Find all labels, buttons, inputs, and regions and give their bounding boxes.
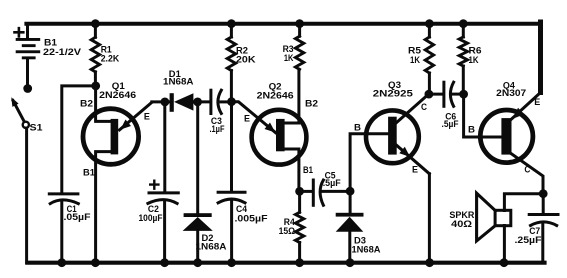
resistor R2 — [227, 24, 235, 102]
label C5 value — [323, 170, 341, 188]
svg-text:2N307: 2N307 — [496, 88, 526, 99]
wire right supply rail — [538, 22, 543, 93]
svg-text:B2: B2 — [80, 99, 93, 109]
transistor Q1 2N2646 — [83, 86, 152, 263]
label D1 value — [163, 69, 194, 87]
label C7 value — [515, 226, 543, 245]
svg-text:B1: B1 — [83, 167, 95, 177]
node speaker ground — [500, 258, 509, 267]
label R1 value — [101, 44, 120, 64]
node R4 ground — [295, 258, 304, 267]
node C2 ground — [160, 258, 169, 267]
switch S1 — [11, 97, 29, 128]
node Q3 emitter ground — [425, 258, 434, 267]
svg-text:2N2646: 2N2646 — [99, 90, 136, 101]
wire D2 branch — [196, 102, 199, 213]
svg-text:S1: S1 — [30, 123, 44, 134]
wire C2 branch — [163, 102, 166, 191]
svg-text:B1: B1 — [303, 165, 313, 175]
transistor Q2 2N2646 — [232, 69, 307, 191]
resistor R3 — [295, 24, 303, 70]
svg-text:.5µF: .5µF — [442, 119, 459, 129]
node C5/D3 junction — [346, 187, 355, 196]
node D2 ground — [193, 258, 202, 267]
svg-text:20K: 20K — [236, 54, 256, 65]
node D3 ground — [346, 258, 355, 267]
node C2 branch junction — [161, 98, 170, 107]
svg-text:C: C — [524, 165, 530, 175]
svg-text:.05µF: .05µF — [64, 212, 92, 222]
label R3 value — [283, 44, 294, 64]
svg-text:.005µF: .005µF — [235, 213, 269, 223]
wire R2 junction down to C4 — [230, 102, 233, 191]
svg-text:.5µF: .5µF — [323, 178, 341, 188]
node R3 top — [295, 19, 304, 28]
svg-text:40Ω: 40Ω — [451, 219, 472, 229]
svg-text:E: E — [412, 164, 418, 174]
svg-text:1N68A: 1N68A — [163, 77, 194, 87]
wire B2 junction to C1 branch — [62, 86, 96, 192]
label Q4 — [496, 81, 526, 100]
svg-text:2.2K: 2.2K — [101, 54, 120, 65]
label D2 value — [196, 233, 228, 251]
transistor Q3 2N2925 — [366, 94, 429, 263]
node D2 branch junction — [193, 98, 202, 107]
wire Q4 base branch — [464, 94, 502, 137]
node C4 ground — [227, 258, 236, 267]
svg-text:1K: 1K — [284, 53, 294, 64]
node battery/switch junction — [23, 84, 32, 93]
label R5 value — [408, 45, 422, 66]
label Q3 — [373, 80, 414, 100]
svg-text:1K: 1K — [410, 55, 420, 66]
capacitor C5 — [300, 180, 351, 205]
label C3 value — [210, 116, 225, 134]
label C1 value — [64, 204, 92, 222]
node C1 ground — [57, 258, 66, 267]
wire speaker top branch — [504, 194, 543, 211]
resistor R1 — [91, 24, 99, 86]
node R2 top — [227, 19, 236, 28]
capacitor C4 — [218, 192, 245, 263]
svg-text:.1µF: .1µF — [210, 124, 225, 134]
label C6 value — [442, 112, 459, 130]
node C6 left junction — [425, 90, 434, 99]
svg-text:E: E — [144, 112, 150, 122]
diode D1 1N68A — [170, 93, 210, 112]
diode D3 1N68A — [336, 191, 364, 263]
svg-text:E: E — [244, 114, 250, 124]
wire switch to ground rail — [25, 128, 28, 263]
svg-text:B2: B2 — [305, 99, 318, 109]
wire bottom ground rail — [27, 261, 544, 265]
resistor R4 — [295, 191, 303, 262]
node R1 top — [91, 19, 100, 28]
wire top supply rail — [26, 22, 540, 26]
transistor Q4 2N307 — [480, 93, 543, 194]
node C3/R2 junction — [227, 97, 236, 106]
svg-text:1K: 1K — [469, 55, 479, 66]
svg-text:B: B — [354, 123, 362, 133]
capacitor C2 — [148, 181, 178, 263]
resistor R6 — [459, 24, 467, 94]
speaker SPKR 40ohm — [477, 193, 511, 263]
svg-text:C: C — [421, 102, 427, 112]
label SPKR value — [449, 210, 474, 229]
label D3 value — [352, 236, 382, 255]
node Q1 B1 ground — [91, 258, 100, 267]
svg-text:22-1/2V: 22-1/2V — [43, 47, 82, 58]
svg-text:2N2646: 2N2646 — [257, 91, 294, 102]
svg-text:1N68A: 1N68A — [196, 241, 228, 251]
node B2 junction of Q1 — [91, 82, 100, 91]
diode D2 1N68A — [183, 213, 213, 263]
svg-text:2N2925: 2N2925 — [373, 88, 414, 99]
node R6 top — [459, 19, 468, 28]
label R6 value — [469, 45, 482, 66]
resistor R5 — [425, 24, 433, 94]
battery B1 — [15, 24, 41, 89]
svg-text:100µF: 100µF — [139, 213, 163, 223]
svg-text:E: E — [534, 97, 540, 107]
svg-text:B: B — [468, 125, 476, 135]
node R5 top — [425, 19, 434, 28]
wire emitter node row — [152, 100, 170, 103]
wire Q3 base branch — [350, 134, 388, 191]
svg-text:.25µF: .25µF — [515, 235, 543, 245]
svg-text:15Ω: 15Ω — [279, 226, 296, 236]
capacitor C3 — [211, 90, 232, 113]
label R4 value — [279, 217, 296, 236]
capacitor C6 — [429, 82, 464, 106]
label B1 value — [43, 38, 82, 58]
label Q2 — [257, 81, 294, 101]
capacitor C1 — [49, 194, 78, 263]
capacitor C7 — [529, 194, 558, 263]
label C2 value — [139, 204, 163, 223]
node speaker/C7 junction — [539, 189, 548, 198]
label R2 value — [236, 45, 256, 65]
node C5/R4 junction — [295, 187, 304, 196]
label C4 value — [235, 204, 269, 223]
label Q1 — [99, 81, 136, 101]
node C6 right junction — [459, 90, 468, 99]
svg-text:1N68A: 1N68A — [352, 244, 382, 254]
